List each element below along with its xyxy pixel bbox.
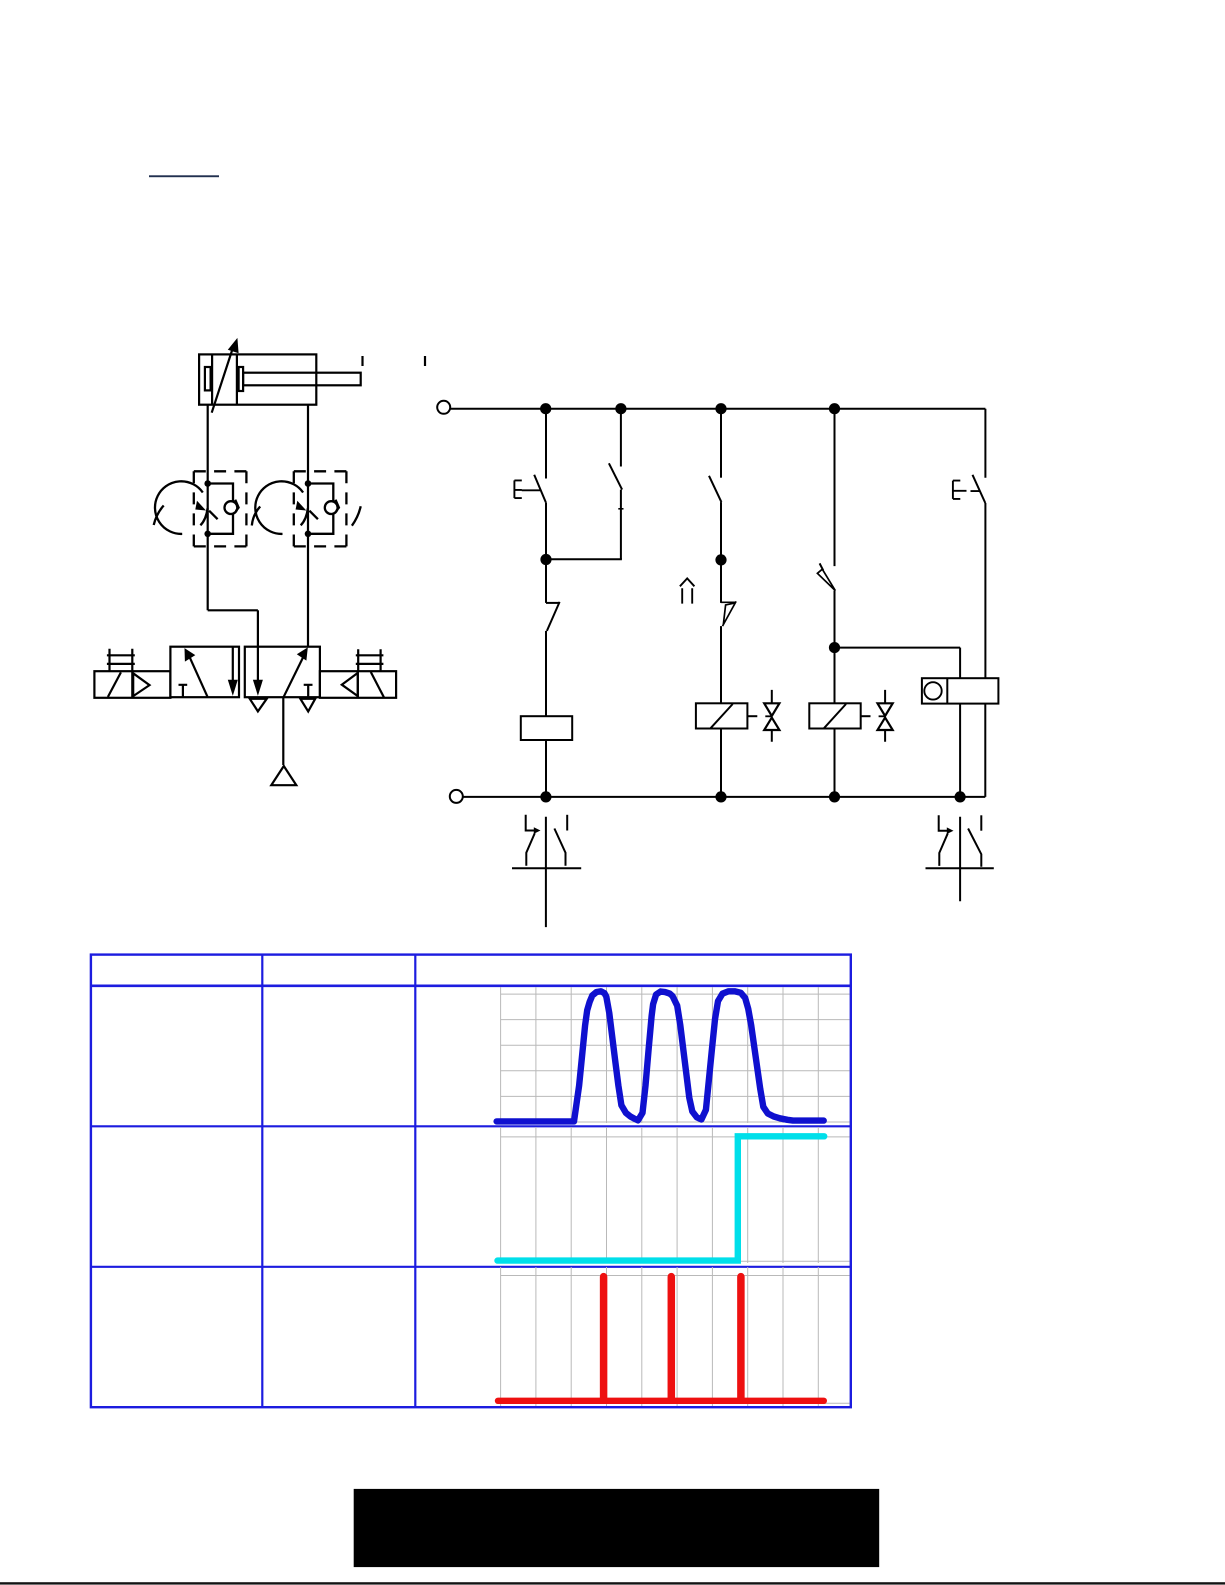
branch4 wire down — [834, 591, 836, 704]
branch4 wire to bottom rail — [834, 729, 836, 797]
Y2 valve icon — [884, 690, 886, 742]
node B dot — [715, 554, 726, 565]
flow control valve V2 — [255, 471, 360, 546]
right end cap (solenoid+pilot) — [320, 671, 396, 698]
wire cylinder left port down — [207, 405, 209, 611]
branch2 wire down — [620, 490, 622, 560]
left square down arrow — [232, 647, 234, 686]
V2 check valve circle — [325, 501, 338, 514]
V1 check valve seat — [235, 500, 238, 511]
Y2 link stub — [861, 715, 871, 717]
cylinder 1A body — [199, 354, 316, 404]
bottom rail terminal — [450, 790, 463, 803]
branch3 wire to bottom rail — [720, 729, 722, 797]
branch3 wire mid — [720, 502, 722, 603]
V2 adjust arrow tail — [309, 511, 318, 520]
limit switch symbol right (below rail) — [926, 815, 994, 901]
V2 node top — [305, 480, 312, 487]
branch3 wire from rail — [720, 409, 722, 478]
left solenoid winding icon — [107, 649, 135, 671]
footer rule — [0, 1582, 1225, 1584]
V2 adjust arrow head — [296, 501, 307, 511]
chart gridlines row1 — [501, 987, 850, 1123]
Y1 valve icon — [771, 690, 773, 742]
counter box — [922, 678, 999, 703]
right solenoid diagonal — [371, 672, 384, 697]
electrical ladder diagram — [437, 401, 998, 803]
V2 throttle arc — [255, 481, 303, 534]
cylinder cushion rect left — [205, 367, 211, 390]
switch S3 blade (right) — [973, 475, 986, 503]
wire jog horizontal — [208, 609, 258, 611]
parallel wire to branch2 — [546, 558, 622, 560]
title underline — [149, 175, 219, 177]
top rail terminal — [437, 401, 450, 414]
contact K1 NC tick — [546, 602, 560, 604]
right pilot triangle — [342, 673, 358, 696]
V2 stray stroke right — [352, 506, 361, 526]
branch1 wire to bottom rail — [545, 740, 547, 797]
right square diagonal flow arrow — [284, 657, 304, 698]
5/2-way valve — [94, 647, 396, 786]
V1 throttle arc — [155, 481, 203, 534]
left solenoid diagonal — [108, 672, 121, 697]
wire S3 to counter — [984, 503, 986, 678]
wire jog down to valve — [257, 610, 259, 646]
chart gridlines row3 — [501, 1267, 850, 1406]
V2 node bottom — [305, 531, 312, 538]
valve position square left — [170, 647, 239, 698]
branch3 wire to solenoid — [720, 626, 722, 703]
switch S1 E actuator — [514, 480, 540, 498]
bottom rail node dots — [540, 791, 551, 802]
V1 adjust arrow head — [195, 501, 206, 511]
V1 node top — [204, 480, 211, 487]
node A dot — [540, 554, 551, 565]
top rail node dots — [540, 403, 551, 414]
ruler tick right above rod — [424, 356, 426, 366]
V2 bypass loop — [308, 484, 333, 534]
limit contact blade (branch4) — [817, 569, 835, 590]
exhaust triangle right — [300, 699, 315, 712]
limit switch symbol left (below rail) — [512, 815, 581, 927]
counter wire down right — [984, 704, 986, 797]
switch S3 E actuator — [953, 481, 980, 499]
bottom rail — [463, 796, 985, 798]
cylinder piston line right — [236, 354, 238, 404]
ruler tick left above rod — [361, 356, 363, 366]
V1 stray stroke left — [154, 506, 164, 526]
branch2 terminal tick — [618, 508, 623, 510]
node C dot — [829, 642, 840, 653]
stray stroke middle — [252, 507, 260, 526]
exhaust triangle left — [250, 699, 267, 712]
right solenoid winding icon — [356, 649, 384, 671]
waveform position (cyan) — [498, 1136, 825, 1260]
V1 adjust arrow tail — [209, 511, 218, 520]
branch4 wire from rail — [834, 409, 836, 566]
right square blocked port T — [304, 685, 313, 697]
waveform pressure (blue) — [497, 991, 824, 1121]
contact K1 NC blade — [547, 602, 560, 631]
left square blocked port T — [179, 685, 188, 697]
solenoid Y1 — [696, 703, 748, 728]
wire node C to counter — [835, 647, 961, 649]
limit contact tick (branch4) — [820, 563, 824, 570]
top rail — [450, 408, 985, 410]
cylinder cushion rect right — [239, 367, 244, 391]
V2 check valve seat — [336, 500, 339, 511]
counter wire down left — [959, 704, 961, 797]
right square down arrow (supply) — [257, 647, 259, 686]
branch1 wire from rail — [545, 409, 547, 479]
results table — [91, 955, 851, 1408]
left pilot triangle — [133, 673, 149, 696]
branch1 wire mid — [545, 502, 547, 603]
cylinder piston line left — [211, 354, 213, 404]
wire cylinder right port down — [307, 405, 309, 647]
branch2 wire from rail — [620, 409, 622, 467]
contact NC with arrow (branch3) — [721, 601, 736, 626]
left end cap (solenoid+pilot) — [94, 671, 170, 698]
chart gridlines row2 — [501, 1127, 850, 1263]
contact K1 NO blade (branch2) — [609, 463, 622, 489]
cylinder piston rod — [243, 373, 361, 386]
switch S2 blade — [709, 476, 721, 502]
flow control valve V1 — [154, 471, 261, 546]
Y1 link stub — [747, 715, 757, 717]
V1 node bottom — [204, 531, 211, 538]
supply line — [282, 697, 284, 765]
V1 throttle jaw left — [200, 508, 207, 525]
supply triangle — [271, 766, 296, 785]
valve position square right — [245, 647, 320, 698]
redacted caption block — [354, 1489, 880, 1567]
left square diagonal flow arrow — [189, 655, 208, 696]
V1 check valve circle — [225, 501, 238, 514]
solenoid Y2 — [809, 703, 860, 728]
right rail drop — [984, 409, 986, 478]
V2 throttle jaw left — [301, 508, 308, 525]
waveform counter pulses (red) — [498, 1277, 824, 1401]
branch1 wire to coil — [545, 631, 547, 716]
relay coil K1 — [521, 716, 572, 740]
cylinder cushion-adjust arrow — [212, 346, 234, 413]
switch S1 blade — [534, 475, 546, 503]
V1 bypass loop — [208, 484, 233, 534]
counter circle — [924, 682, 941, 699]
arrow up symbol — [680, 578, 695, 603]
